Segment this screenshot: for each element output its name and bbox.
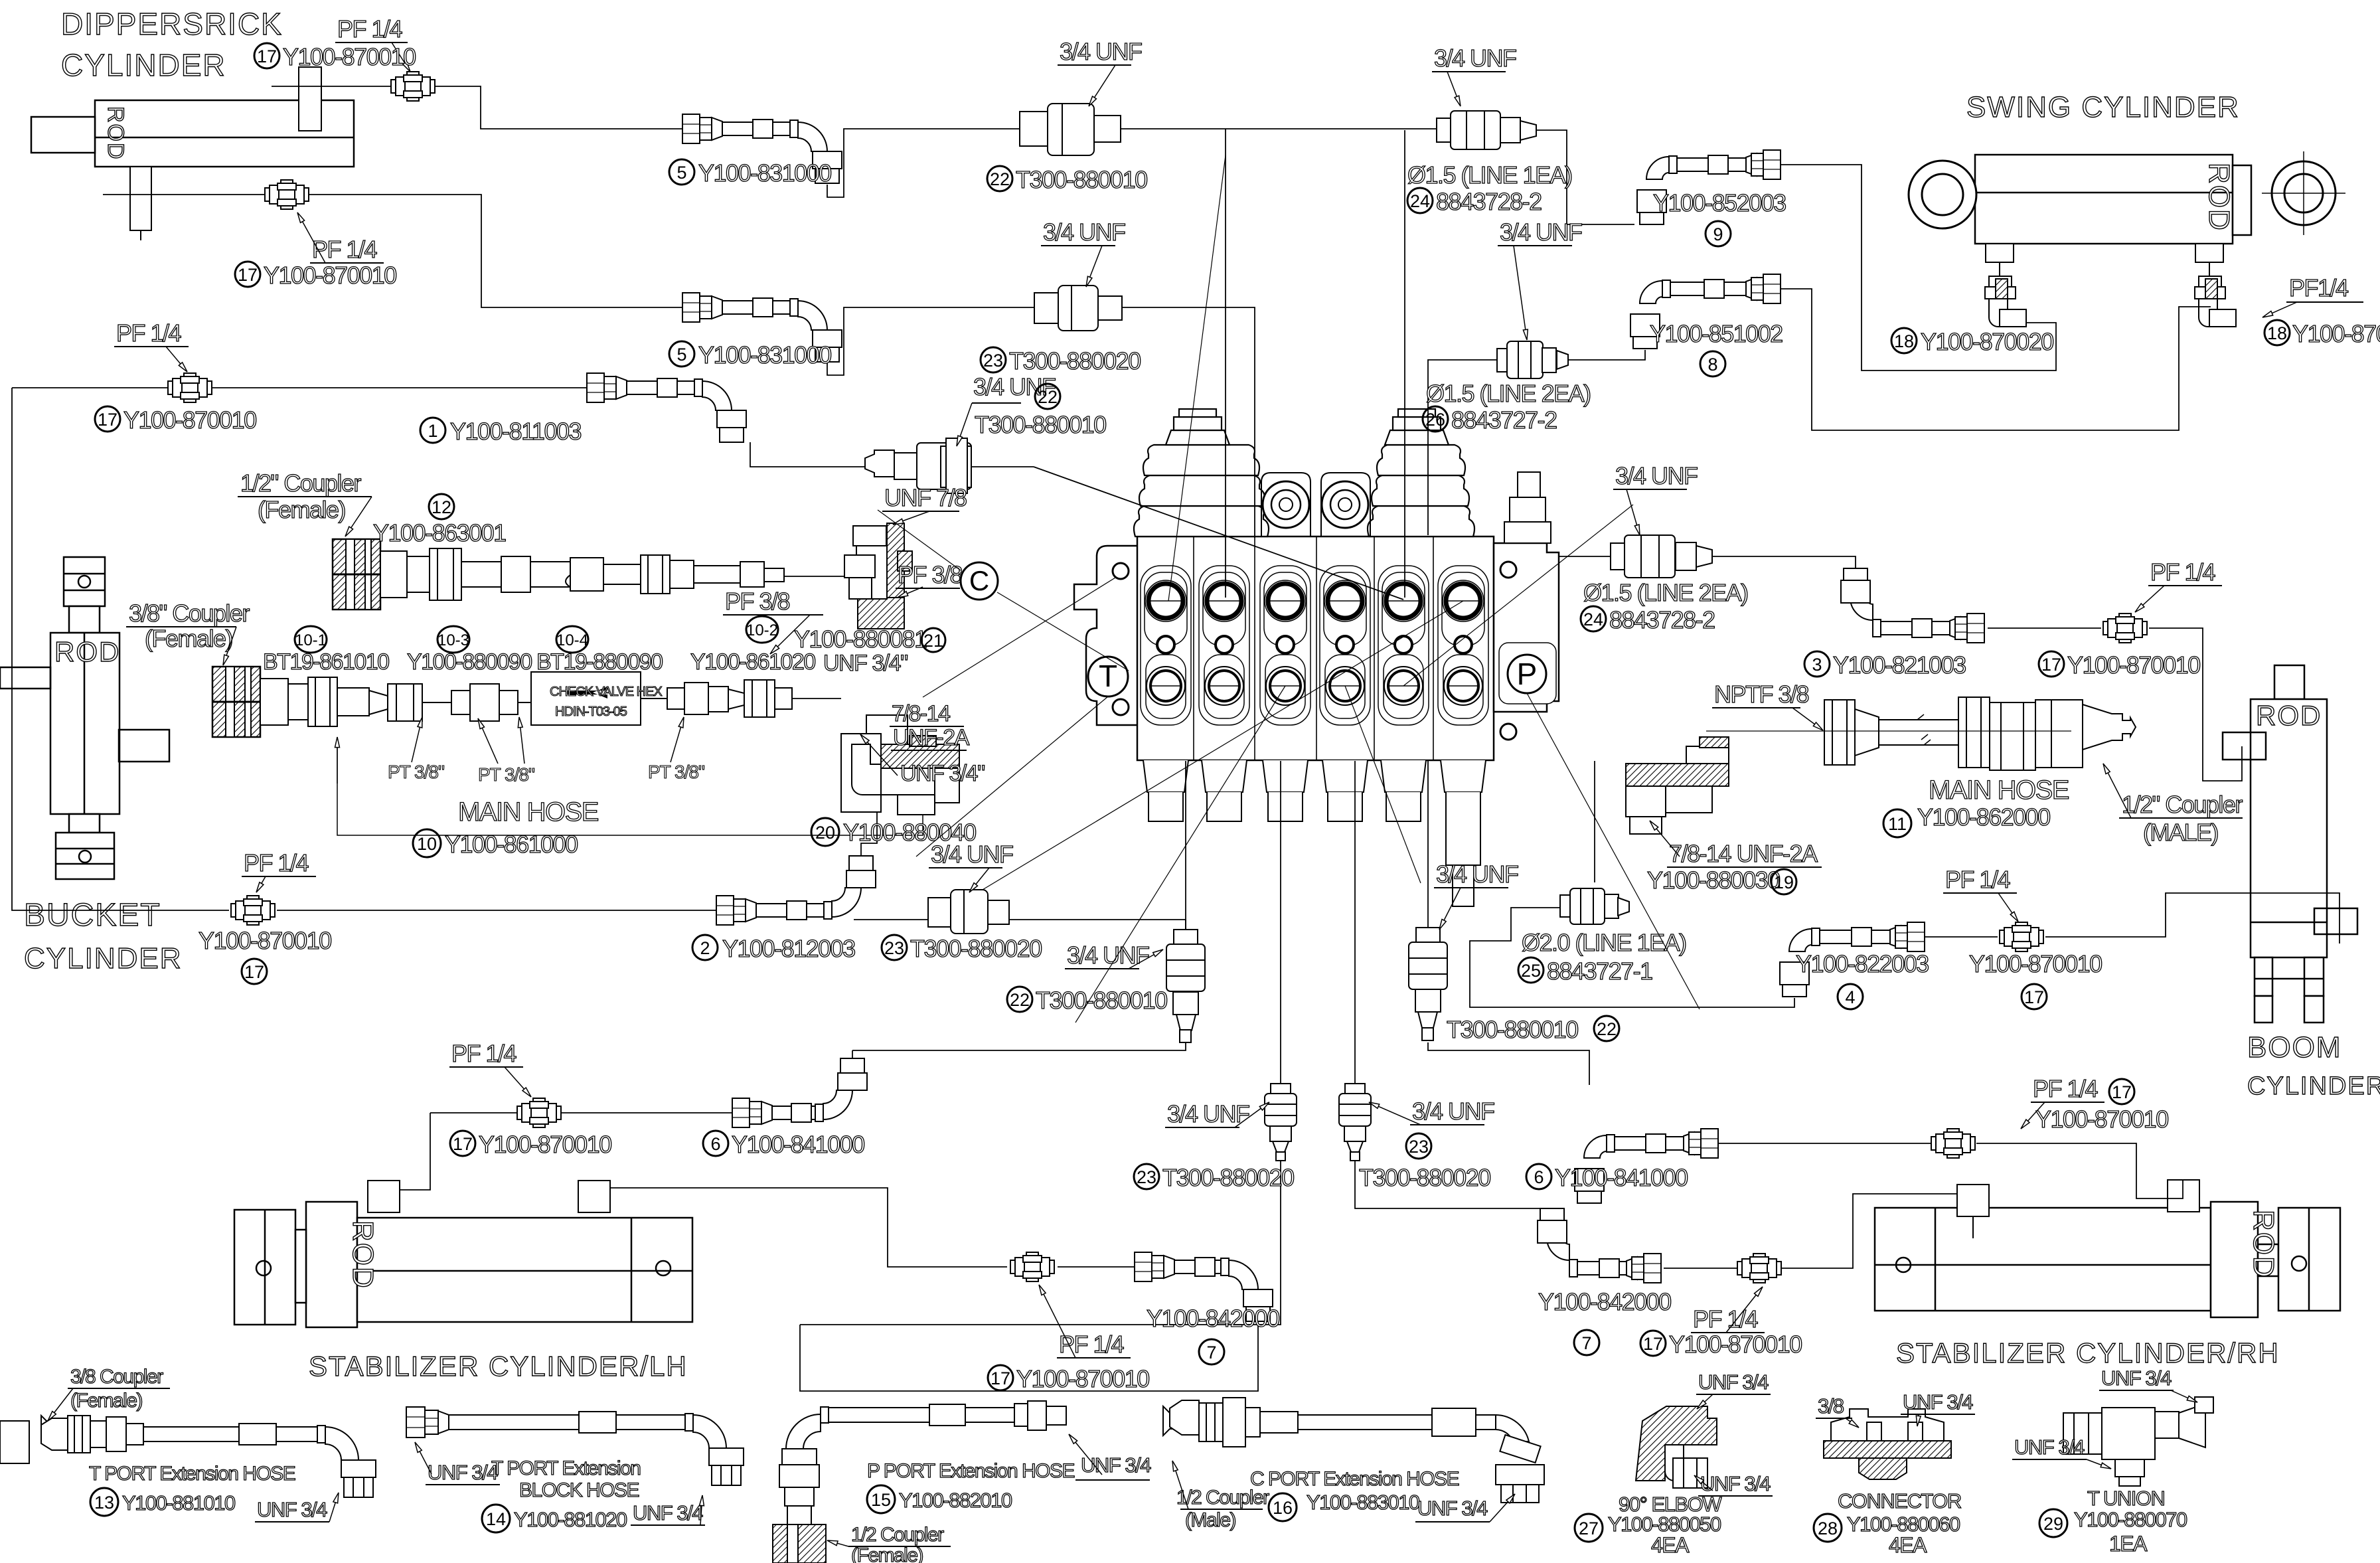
wire tee23a to valve [1103,307,1255,538]
label 16 Y100-883010 [1269,1493,1297,1521]
wire fitting17g to stab RH rod port [1976,1143,2183,1198]
svg-text:Y100-842000: Y100-842000 [1147,1305,1279,1332]
svg-text:1/2" Coupler: 1/2" Coupler [240,469,361,497]
svg-text:Y100-822003: Y100-822003 [1796,950,1929,977]
fitting 25 8843727-1 [1560,888,1629,924]
stabilizer RH cylinder [1875,1202,2340,1317]
elbow fitting 18 right (Y100-870020) [2195,276,2236,327]
svg-text:Y100-821003: Y100-821003 [1833,651,1966,679]
swing cylinder right eye [2262,151,2345,235]
svg-text:10-1: 10-1 [295,631,327,649]
hose 6 Y100-841000 [732,1058,867,1127]
svg-text:8: 8 [1707,355,1717,374]
svg-text:T300-880020: T300-880020 [1359,1164,1490,1191]
leader diagonal from tee 22a to valve [1168,155,1226,601]
leader diagonal through C balloon [878,510,961,570]
wire tee22b to valve bellows2 [971,466,1034,467]
svg-text:T300-880020: T300-880020 [1009,347,1141,374]
valve section 6 small port [1455,636,1472,653]
valve section pods [1141,566,1488,725]
fitting 17e1 PF1/4 (stab LH rod side) [1010,1252,1054,1281]
svg-text:10-3: 10-3 [437,631,469,649]
svg-text:17: 17 [257,46,277,66]
svg-text:T UNION: T UNION [2087,1487,2164,1510]
tee 22b T300-880010 (mid, above valve) [865,438,971,493]
svg-text:10-4: 10-4 [556,631,588,649]
svg-text:19: 19 [1774,872,1794,892]
label 17 Y100-870010 (RH) [1640,1331,1666,1356]
svg-text:9: 9 [1713,224,1723,244]
wire hose3 to fitting17h [1988,627,2101,629]
valve section 1 bottom port ring [1147,667,1185,705]
valve section 2 small port [1216,636,1233,653]
svg-text:(Female): (Female) [70,1390,143,1412]
wire diagonal tee22b to valve [1034,467,1403,600]
svg-text:(Female): (Female) [258,496,345,523]
svg-text:Y100-862000: Y100-862000 [1917,803,2050,831]
wire fitting24b to hose3 [1712,556,1856,570]
svg-text:Y100-880050: Y100-880050 [1608,1513,1721,1536]
svg-text:18: 18 [1894,331,1914,351]
svg-text:ROD: ROD [2203,163,2235,232]
svg-text:26: 26 [1425,410,1445,430]
valve spool boot 6 [1441,760,1486,906]
svg-text:10-2: 10-2 [746,621,778,639]
label 22 T300-880010 (c) [1007,987,1032,1012]
svg-text:10: 10 [417,834,437,854]
svg-text:T: T [1099,659,1117,693]
swing cylinder left eye [1909,161,1976,228]
label 23 T300-880020 (a) [981,347,1006,372]
valve left bolt top [1113,563,1129,579]
svg-text:Y100-851002: Y100-851002 [1650,320,1783,347]
svg-text:7/8-14 UNF-2A: 7/8-14 UNF-2A [1669,840,1818,867]
svg-text:Y100-812003: Y100-812003 [722,935,855,962]
hose 14 T PORT block hose [406,1407,744,1485]
svg-text:UNF 3/4: UNF 3/4 [1417,1497,1488,1520]
svg-text:MAIN HOSE: MAIN HOSE [458,797,598,827]
svg-text:PF1/4: PF1/4 [2289,274,2348,301]
wire fitting17f to boom bottom port [2045,893,2340,944]
fitting 24a 8843728-2 (top) [1437,111,1536,149]
svg-text:Y100-880090: Y100-880090 [407,649,532,675]
svg-text:2: 2 [700,938,710,958]
3/8 coupler female (hose 10) [212,667,260,737]
svg-text:Y100-880081: Y100-880081 [794,625,927,653]
hose 1 Y100-811003 [587,373,746,442]
svg-text:Y100-883010: Y100-883010 [1307,1491,1420,1514]
svg-text:Ø1.5 (LINE 2EA): Ø1.5 (LINE 2EA) [1583,579,1748,606]
svg-text:PF 1/4: PF 1/4 [2033,1075,2098,1102]
svg-text:BUCKET: BUCKET [24,898,161,933]
svg-text:Y100-870010: Y100-870010 [264,262,396,289]
label 5 Y100-831000 (upper) [669,159,694,185]
valve spool boot 2 [1202,760,1247,821]
svg-text:25: 25 [1521,961,1541,981]
svg-text:Y100-870010: Y100-870010 [2067,651,2200,679]
svg-text:(Female): (Female) [145,625,232,652]
svg-text:18: 18 [2267,323,2287,343]
svg-text:T300-880010: T300-880010 [1036,987,1167,1014]
label 17 Y100-870010 (c) [95,406,120,432]
valve right bolts [1500,562,1516,578]
svg-text:PF 1/4: PF 1/4 [1693,1305,1758,1333]
svg-text:6: 6 [710,1134,720,1154]
svg-text:22: 22 [1597,1019,1617,1039]
svg-text:8843728-2: 8843728-2 [1436,188,1542,215]
hose 8 Y100-851002 [1630,274,1781,349]
wire vertical junction to bellows2 [1404,130,1405,598]
svg-text:Y100-870010: Y100-870010 [198,927,331,954]
wire tee22cL bottom to hose6b [852,1042,1186,1050]
check valve [531,672,641,725]
svg-text:UNF 3/4: UNF 3/4 [1700,1472,1771,1495]
svg-text:NPTF 3/8: NPTF 3/8 [1714,681,1809,708]
wire valve to fitting25 [1594,761,1595,882]
wire bucket top circuit [12,387,167,388]
wire tee23b to tee22cL [854,919,928,920]
wire main hose10 to elbow20 [792,698,841,699]
svg-text:Y100-880070: Y100-880070 [2074,1508,2187,1531]
dipperstick bottom port tube [130,167,151,240]
fitting 17d PF1/4 (bucket lower) [231,896,275,925]
svg-text:ROD: ROD [2256,700,2322,731]
label 23 T300-880020 (b) [882,935,907,960]
hose 12 fittings [380,548,784,600]
svg-text:3/4 UNF: 3/4 UNF [1615,462,1698,489]
hose 5a Y100-831000 (upper) [682,114,842,183]
svg-text:T PORT Extension HOSE: T PORT Extension HOSE [89,1463,295,1485]
svg-text:C: C [969,565,989,596]
hose 15 P PORT extension [773,1401,1066,1563]
svg-text:PF 1/4: PF 1/4 [337,15,402,42]
svg-text:3/4 UNF: 3/4 UNF [1167,1100,1249,1127]
svg-text:CONNECTOR: CONNECTOR [1838,1489,1961,1513]
svg-text:CYLINDER: CYLINDER [2247,1072,2380,1100]
valve knob circle 1 [1263,481,1309,528]
svg-text:Y100-880030: Y100-880030 [1647,866,1780,894]
fitting 10-2 assembly [641,680,792,717]
wire hose5a to tee22a [827,129,1020,197]
svg-text:Y100-880060: Y100-880060 [1847,1513,1960,1536]
label 29 Y100-880070 1EA [2039,1509,2067,1537]
tee 22c T300-880010 (vertical, left) [1166,930,1205,1042]
svg-text:Ø1.5 (LINE 2EA): Ø1.5 (LINE 2EA) [1426,380,1591,407]
wire hose2 elbow to valve [861,761,877,857]
label 27 Y100-880050 4EA [1575,1514,1603,1542]
svg-text:Y100-881020: Y100-881020 [514,1508,627,1531]
valve section 1 top port ring [1145,580,1186,621]
90 deg elbow 27 Y100-880050 [0,1406,1717,1488]
svg-text:3/8 Coupler: 3/8 Coupler [70,1366,163,1388]
svg-text:Ø2.0 (LINE 1EA): Ø2.0 (LINE 1EA) [1522,929,1686,956]
valve left bolt bottom [1113,699,1129,715]
svg-text:27: 27 [1579,1519,1599,1538]
fitting 17h PF1/4 (boom upper) [2103,614,2147,643]
svg-text:Y100-870010: Y100-870010 [123,406,256,434]
label 18 Y100-870020 left [1891,328,1917,353]
fitting 17f PF1/4 (boom lower) [2000,922,2043,951]
leader main hose bracket [337,737,923,835]
svg-text:3/4 UNF: 3/4 UNF [1434,44,1516,72]
fitting 26 8843727-2 [1497,341,1568,378]
svg-text:3/4 UNF: 3/4 UNF [1043,218,1125,246]
svg-text:24: 24 [1410,191,1430,211]
label 1 Y100-811003 [420,418,445,443]
svg-text:Y100-881010: Y100-881010 [122,1491,236,1515]
label 28 Y100-880060 4EA [1814,1514,1842,1542]
svg-text:CYLINDER: CYLINDER [61,48,226,82]
svg-text:3/8: 3/8 [1818,1394,1844,1418]
svg-text:CYLINDER: CYLINDER [24,942,183,975]
svg-text:T300-880010: T300-880010 [1016,166,1147,193]
svg-text:ROD: ROD [103,106,128,161]
valve section 3 bottom port ring [1266,667,1305,705]
svg-text:16: 16 [1273,1498,1293,1518]
valve block left end plate [1074,546,1138,725]
wire fitting17e2 to stab RH left square [1782,1194,1957,1268]
connector 28 Y100-880060 [1824,1409,1951,1479]
svg-text:T PORT Extension: T PORT Extension [491,1457,640,1479]
wire fitting26 to valve [1428,360,1497,535]
svg-text:ROD: ROD [2247,1210,2280,1279]
svg-text:23: 23 [1409,1137,1429,1157]
wire fitting23R down across [1355,1161,1552,1208]
hose 7a Y100-842000 [1135,1252,1273,1321]
label 17 Y100-870010 (e) [450,1131,475,1156]
svg-text:3/4 UNF: 3/4 UNF [1060,38,1142,65]
hose 4 Y100-822003 [1780,922,1925,997]
svg-text:MAIN HOSE: MAIN HOSE [1929,776,2069,805]
leader diagonal C balloon to valve section [923,578,1115,697]
label 23 T300-880020 (L) [1134,1164,1159,1189]
svg-text:22: 22 [990,169,1010,189]
wire hose7a inline [1058,1266,1135,1268]
fitting 23R T300-880020 (vertical) [1339,1084,1371,1161]
wire junction down to valve bellows1 [1225,129,1226,598]
swing cylinder body [1975,155,2251,244]
wire hose6 elbow up to fitting22 line [852,1050,853,1058]
svg-text:BT19-880090: BT19-880090 [536,649,663,675]
wire dipperstick top line [272,86,682,129]
svg-text:SWING CYLINDER: SWING CYLINDER [1966,91,2240,123]
svg-text:BOOM: BOOM [2247,1031,2341,1064]
wire fitting23L down to stab LH return [800,1161,1281,1325]
wire fitting17h to boom top port [2149,628,2242,781]
wire fitting26 to hose8 [1568,350,1645,360]
wire hose6 circuit LH [430,1112,732,1113]
svg-text:5: 5 [676,345,686,365]
valve main body [1137,536,1494,760]
label 12 Y100-863001 [429,494,454,519]
svg-text:UNF 7/8: UNF 7/8 [884,484,967,511]
hose 13 T PORT extension [41,1416,376,1497]
svg-text:STABILIZER CYLINDER/RH: STABILIZER CYLINDER/RH [1896,1337,2280,1368]
valve spool boot 1 [1143,760,1188,821]
label 10-1 BT19-861010 [295,626,327,653]
valve section 1 small port [1157,636,1174,653]
svg-text:Y100-841000: Y100-841000 [1555,1164,1688,1191]
label 15 Y100-882010 [867,1485,895,1513]
wire valve to tee22dR [1427,761,1429,928]
svg-text:3/4 UNF: 3/4 UNF [931,841,1013,868]
svg-text:17: 17 [453,1134,473,1154]
svg-text:BLOCK HOSE: BLOCK HOSE [519,1479,639,1501]
svg-text:HDIN-T03-05: HDIN-T03-05 [555,704,627,719]
wire hose6b to fitting17g [1684,1143,1931,1144]
tee 22d T300-880010 (vertical, right) [1409,928,1447,1040]
wire dipperstick bottom line [103,195,682,307]
wire hose5b to tee23a [827,307,1034,375]
svg-text:Ø1.5 (LINE 1EA): Ø1.5 (LINE 1EA) [1407,161,1572,189]
svg-text:17: 17 [2024,987,2044,1007]
label 17 Y100-870010 (h) [2039,651,2064,677]
label 17 Y100-870010 (7a) [988,1365,1013,1390]
svg-text:Y100-811003: Y100-811003 [450,418,582,445]
wire valve to fitting23R [1354,761,1356,1084]
tee 23b T300-880020 [928,890,1009,934]
T union 29 Y100-880070 [2063,1397,2213,1486]
wire tee22dR bottom [1428,1042,1589,1085]
svg-text:5: 5 [676,163,686,183]
svg-text:UNF 3/4: UNF 3/4 [428,1461,498,1484]
valve section 6 bottom port ring [1444,667,1482,705]
hose 2 Y100-812003 [716,856,876,925]
valve section 4 top port ring [1324,580,1366,621]
svg-text:T300-880020: T300-880020 [910,935,1042,962]
svg-text:BT19-861010: BT19-861010 [263,649,389,675]
stabilizer RH top port square right [2168,1180,2199,1212]
wire hose4 to fitting17f [1890,936,1998,938]
svg-text:17: 17 [2112,1082,2132,1102]
svg-text:3: 3 [1812,655,1822,675]
hose 12 Y100-863001 coupler [333,539,380,610]
elbow 21 Y100-880081 [844,523,912,629]
svg-text:STABILIZER CYLINDER/LH: STABILIZER CYLINDER/LH [309,1351,688,1382]
tee 23a T300-880020 (center) [1034,286,1122,331]
valve bellows at x=2134 [1368,409,1474,536]
valve T port circle [1088,657,1128,697]
stabilizer LH top port square left [368,1181,400,1212]
svg-text:Y100-870010: Y100-870010 [1016,1365,1149,1392]
svg-text:Y100-870010: Y100-870010 [283,43,416,70]
svg-text:1/2" Coupler: 1/2" Coupler [2122,791,2243,818]
svg-text:17: 17 [244,962,264,982]
svg-text:Y100-870010: Y100-870010 [479,1131,611,1158]
svg-text:6: 6 [1534,1167,1544,1187]
svg-text:23: 23 [884,938,904,958]
fitting 17a PF1/4 (dipperstick top) [391,72,435,101]
svg-text:17: 17 [2041,655,2061,675]
label 17 Y100-870010 (b) [235,262,260,287]
svg-text:4: 4 [1845,987,1855,1007]
svg-text:(Female): (Female) [851,1544,923,1563]
svg-text:Y100-861000: Y100-861000 [445,831,578,858]
balloon C [961,562,998,600]
svg-text:PF 1/4: PF 1/4 [116,319,181,347]
swing right port [2195,244,2223,276]
svg-text:Y100-841000: Y100-841000 [732,1131,864,1158]
valve section 4 bottom port ring [1326,667,1364,705]
svg-text:T300-880010: T300-880010 [975,411,1106,438]
svg-text:Y100-831000: Y100-831000 [698,341,831,369]
svg-text:7: 7 [1206,1343,1216,1362]
svg-text:UNF 3/4: UNF 3/4 [1903,1390,1973,1414]
hose 3 Y100-821003 [1841,568,1984,643]
svg-text:15: 15 [871,1490,891,1510]
label 3 Y100-821003 [1804,651,1830,677]
svg-text:Y100-842000: Y100-842000 [1538,1288,1671,1315]
valve section 3 top port ring [1265,580,1306,621]
svg-text:Y100-870010: Y100-870010 [1669,1331,1802,1358]
wire hose1 to tee22b [750,442,865,467]
svg-text:20: 20 [815,823,835,843]
svg-text:1: 1 [428,421,437,441]
elbow 20 Y100-880040 [841,715,959,815]
svg-text:(MALE): (MALE) [2143,819,2218,846]
svg-text:7/8-14: 7/8-14 [892,701,950,726]
valve bellows at x=1804 [1134,409,1269,536]
label 10-4 BT19-880090 [556,626,588,653]
svg-text:T300-880020: T300-880020 [1162,1164,1294,1191]
svg-text:22: 22 [1010,990,1030,1010]
label 6 Y100-841000 (RH) [1526,1164,1551,1189]
svg-text:Y100-863001: Y100-863001 [373,519,506,546]
svg-text:4EA: 4EA [1651,1533,1690,1557]
label 20 Y100-880040 [811,818,839,846]
svg-text:13: 13 [94,1493,114,1513]
svg-text:UNF 3/4: UNF 3/4 [1081,1453,1151,1477]
svg-text:PF 1/4: PF 1/4 [244,849,309,876]
fitting 24b 8843728-2 (right of valve) [1611,535,1712,578]
svg-text:29: 29 [2043,1514,2063,1534]
svg-text:17: 17 [1643,1334,1663,1354]
svg-text:(Male): (Male) [1185,1509,1236,1531]
svg-text:28: 28 [1818,1519,1838,1538]
elbow 19 Y100-880030 (hatched) [1626,737,1729,834]
valve section 6 top port ring [1443,580,1484,621]
hose 6b Y100-841000 (RH) [1575,1129,1718,1203]
label 22 T300-880010 (a) [987,166,1012,191]
svg-text:22: 22 [1038,387,1058,407]
svg-text:PF 3/8: PF 3/8 [725,588,790,615]
svg-text:1EA: 1EA [2109,1532,2148,1556]
dipperstick top port tube [299,67,321,131]
label 18 Y100-870020 right [2264,320,2290,345]
fitting 17b PF1/4 (dipperstick bottom) [265,180,309,209]
svg-text:UNF 3/4: UNF 3/4 [2101,1366,2172,1390]
valve spool boot 5 [1381,760,1426,821]
svg-text:Y100-870010: Y100-870010 [2035,1106,2168,1133]
label 5 Y100-831000 (lower) [669,341,694,367]
svg-text:24: 24 [1583,610,1603,629]
fitting 17g PF1/4 (RH rod side) [1931,1129,1975,1158]
svg-text:PT 3/8": PT 3/8" [388,762,444,782]
svg-text:ROD: ROD [54,636,120,667]
svg-text:12: 12 [432,497,451,517]
dipperstick cylinder body [31,100,354,167]
label 14 Y100-881020 [482,1505,510,1532]
tee 22a T300-880010 (top center) [1020,104,1121,155]
fitting 17e2 PF1/4 (RH base) [1737,1254,1781,1283]
valve section dividers [1194,536,1433,760]
wire hose8 to swing right elbow [1746,289,2211,430]
svg-text:7: 7 [1581,1333,1591,1353]
label 6 Y100-841000 [703,1131,728,1156]
svg-text:UNF 3/4: UNF 3/4 [2014,1436,2085,1459]
main hose 11 Y100-862000 [1706,697,2136,770]
svg-text:Y100-870020: Y100-870020 [1921,328,2053,355]
